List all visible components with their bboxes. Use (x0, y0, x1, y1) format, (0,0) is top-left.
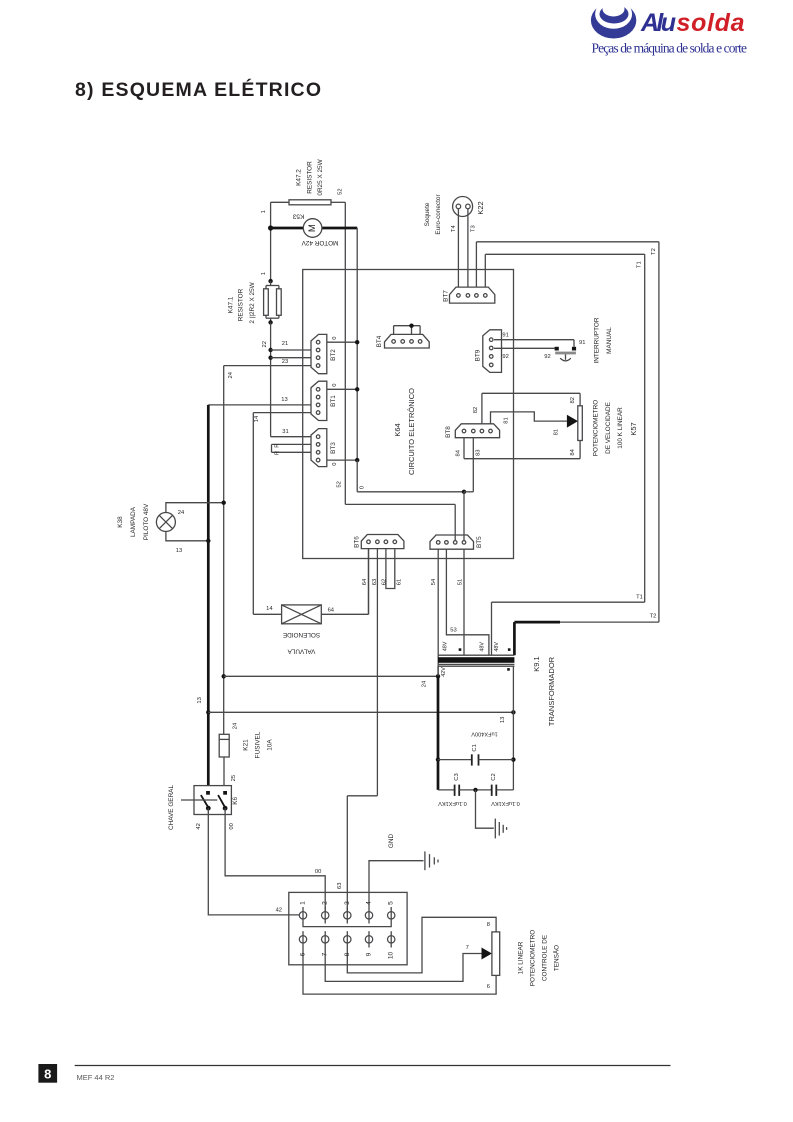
svg-text:MEF 44 R2: MEF 44 R2 (77, 1073, 115, 1082)
svg-text:22: 22 (262, 341, 268, 347)
svg-text:42V: 42V (441, 667, 447, 677)
svg-text:14: 14 (266, 606, 273, 612)
svg-text:0: 0 (360, 486, 366, 489)
svg-text:31: 31 (282, 429, 288, 435)
svg-text:13: 13 (281, 397, 287, 403)
svg-text:BT4: BT4 (376, 335, 383, 347)
svg-text:84: 84 (570, 448, 576, 455)
svg-text:FUSIVEL: FUSIVEL (254, 731, 261, 758)
svg-text:BT9: BT9 (474, 349, 481, 361)
svg-text:54: 54 (431, 578, 437, 585)
svg-text:1K LINEAR: 1K LINEAR (518, 941, 525, 974)
svg-text:0.1uFX1KV: 0.1uFX1KV (438, 800, 467, 806)
svg-text:SOLENOIDE: SOLENOIDE (283, 631, 320, 638)
svg-text:81: 81 (504, 417, 510, 423)
svg-text:63: 63 (372, 579, 378, 585)
svg-text:K47.1: K47.1 (227, 296, 234, 313)
svg-text:RESISTOR: RESISTOR (306, 161, 313, 194)
svg-text:BT5: BT5 (476, 536, 483, 548)
svg-text:R: R (274, 444, 280, 448)
svg-text:LAMPADA: LAMPADA (130, 506, 137, 537)
svg-text:K21: K21 (242, 739, 249, 751)
svg-text:T3: T3 (470, 225, 476, 232)
svg-text:K6: K6 (232, 797, 239, 805)
svg-text:Soquete: Soquete (424, 202, 431, 226)
svg-text:10: 10 (388, 952, 395, 960)
svg-text:BT7: BT7 (443, 290, 450, 302)
svg-text:8: 8 (487, 922, 490, 928)
svg-text:14: 14 (254, 415, 260, 422)
svg-text:T2: T2 (651, 248, 657, 255)
svg-text:52: 52 (337, 481, 343, 487)
svg-text:42: 42 (196, 823, 202, 829)
svg-text:solda: solda (677, 9, 745, 37)
svg-text:10A: 10A (267, 739, 274, 751)
svg-text:21: 21 (282, 341, 288, 347)
svg-text:13: 13 (176, 548, 182, 554)
svg-text:C1: C1 (472, 744, 478, 751)
svg-text:84: 84 (456, 449, 462, 456)
svg-text:CONTROLE DE: CONTROLE DE (542, 935, 549, 981)
svg-text:24: 24 (178, 510, 185, 516)
svg-text:00: 00 (315, 869, 321, 875)
svg-text:83: 83 (476, 449, 482, 455)
svg-text:K22: K22 (476, 201, 485, 214)
svg-text:48V: 48V (480, 642, 486, 652)
svg-text:52: 52 (337, 188, 343, 194)
svg-text:82: 82 (570, 397, 576, 403)
svg-text:61: 61 (397, 579, 403, 585)
svg-text:PILOTO 48V: PILOTO 48V (143, 503, 150, 540)
svg-text:M: M (307, 224, 318, 232)
svg-text:T1: T1 (636, 261, 642, 268)
svg-text:C2: C2 (491, 773, 497, 780)
svg-text:1uFX400V: 1uFX400V (471, 731, 498, 737)
svg-text:63: 63 (337, 883, 343, 889)
svg-text:VALVULA: VALVULA (287, 648, 316, 655)
svg-text:K53: K53 (292, 213, 304, 220)
svg-text:0: 0 (332, 463, 338, 466)
svg-text:8: 8 (344, 952, 351, 956)
svg-text:51: 51 (458, 579, 464, 585)
svg-text:92: 92 (544, 354, 550, 360)
svg-text:24: 24 (228, 371, 234, 378)
svg-text:0.1uFX1KV: 0.1uFX1KV (491, 800, 520, 806)
svg-text:DE VELOCIDADE: DE VELOCIDADE (605, 402, 612, 454)
svg-text:1: 1 (300, 901, 307, 905)
svg-text:1: 1 (261, 210, 267, 213)
svg-text:25: 25 (231, 775, 237, 781)
svg-text:K9.1: K9.1 (532, 656, 541, 671)
svg-text:91: 91 (579, 340, 585, 346)
svg-text:24: 24 (421, 680, 427, 687)
svg-text:GND: GND (388, 834, 395, 849)
svg-text:BT3: BT3 (330, 442, 337, 454)
svg-text:3: 3 (344, 901, 351, 905)
svg-text:82: 82 (473, 407, 479, 413)
svg-text:Peças de máquina de solda e co: Peças de máquina de solda e corte (592, 41, 748, 56)
svg-text:C3: C3 (454, 773, 460, 780)
svg-text:62: 62 (382, 579, 388, 585)
svg-text:K47.2: K47.2 (296, 169, 303, 186)
svg-text:T1: T1 (636, 595, 643, 601)
svg-text:13: 13 (197, 697, 203, 703)
svg-text:100 K LINEAR: 100 K LINEAR (617, 407, 624, 449)
svg-text:T2: T2 (650, 614, 657, 620)
svg-text:48V: 48V (443, 641, 449, 651)
svg-text:TENSÃO: TENSÃO (552, 945, 561, 971)
svg-text:BT2: BT2 (330, 349, 337, 361)
svg-text:13: 13 (500, 717, 506, 723)
svg-text:RESISTOR: RESISTOR (238, 288, 245, 321)
svg-text:0: 0 (332, 384, 338, 387)
svg-text:8: 8 (44, 1067, 51, 1082)
svg-text:00: 00 (229, 823, 235, 829)
svg-text:53: 53 (450, 628, 456, 634)
svg-text:BT8: BT8 (445, 426, 452, 438)
svg-text:81: 81 (554, 429, 560, 435)
svg-text:2 ||2R2 X 25W: 2 ||2R2 X 25W (249, 281, 256, 323)
svg-text:0R25 X 25W: 0R25 X 25W (317, 158, 324, 195)
svg-text:CIRCUITO ELETRÔNICO: CIRCUITO ELETRÔNICO (407, 388, 416, 475)
svg-text:2: 2 (322, 901, 329, 905)
svg-text:POTENCIOMETRO: POTENCIOMETRO (530, 930, 537, 986)
svg-text:42: 42 (276, 908, 282, 914)
svg-text:MANUAL: MANUAL (606, 327, 613, 354)
svg-text:Euro-conector: Euro-conector (435, 194, 442, 235)
svg-text:7: 7 (322, 952, 329, 956)
svg-text:48V: 48V (494, 642, 500, 652)
svg-text:POTENCIOMETRO: POTENCIOMETRO (593, 400, 600, 456)
svg-text:7: 7 (466, 945, 469, 951)
svg-text:R: R (274, 451, 280, 455)
svg-text:23: 23 (282, 359, 288, 365)
svg-text:TRANSFORMADOR: TRANSFORMADOR (547, 656, 556, 726)
svg-text:BT1: BT1 (330, 395, 337, 407)
svg-text:8) ESQUEMA ELÉTRICO: 8) ESQUEMA ELÉTRICO (75, 78, 321, 101)
svg-text:6: 6 (300, 952, 307, 956)
svg-text:1: 1 (261, 272, 267, 275)
svg-text:K38: K38 (117, 516, 124, 528)
svg-text:5: 5 (388, 901, 395, 905)
svg-text:K64: K64 (393, 423, 402, 436)
svg-text:4: 4 (366, 901, 373, 905)
svg-text:9: 9 (366, 952, 373, 956)
svg-text:92: 92 (502, 354, 508, 360)
svg-text:24: 24 (233, 722, 239, 729)
svg-text:CHAVE GERAL: CHAVE GERAL (168, 785, 175, 830)
svg-text:BT6: BT6 (353, 536, 360, 548)
svg-text:64: 64 (362, 578, 368, 585)
svg-text:K57: K57 (629, 422, 638, 435)
svg-text:MOTOR 42V: MOTOR 42V (301, 239, 339, 246)
svg-text:Alu: Alu (640, 9, 676, 37)
svg-text:0: 0 (332, 336, 338, 339)
svg-text:T4: T4 (451, 225, 457, 233)
svg-text:6: 6 (487, 984, 490, 990)
svg-text:INTERRUPTOR: INTERRUPTOR (594, 317, 601, 363)
svg-text:91: 91 (502, 332, 508, 338)
svg-text:64: 64 (328, 608, 335, 614)
